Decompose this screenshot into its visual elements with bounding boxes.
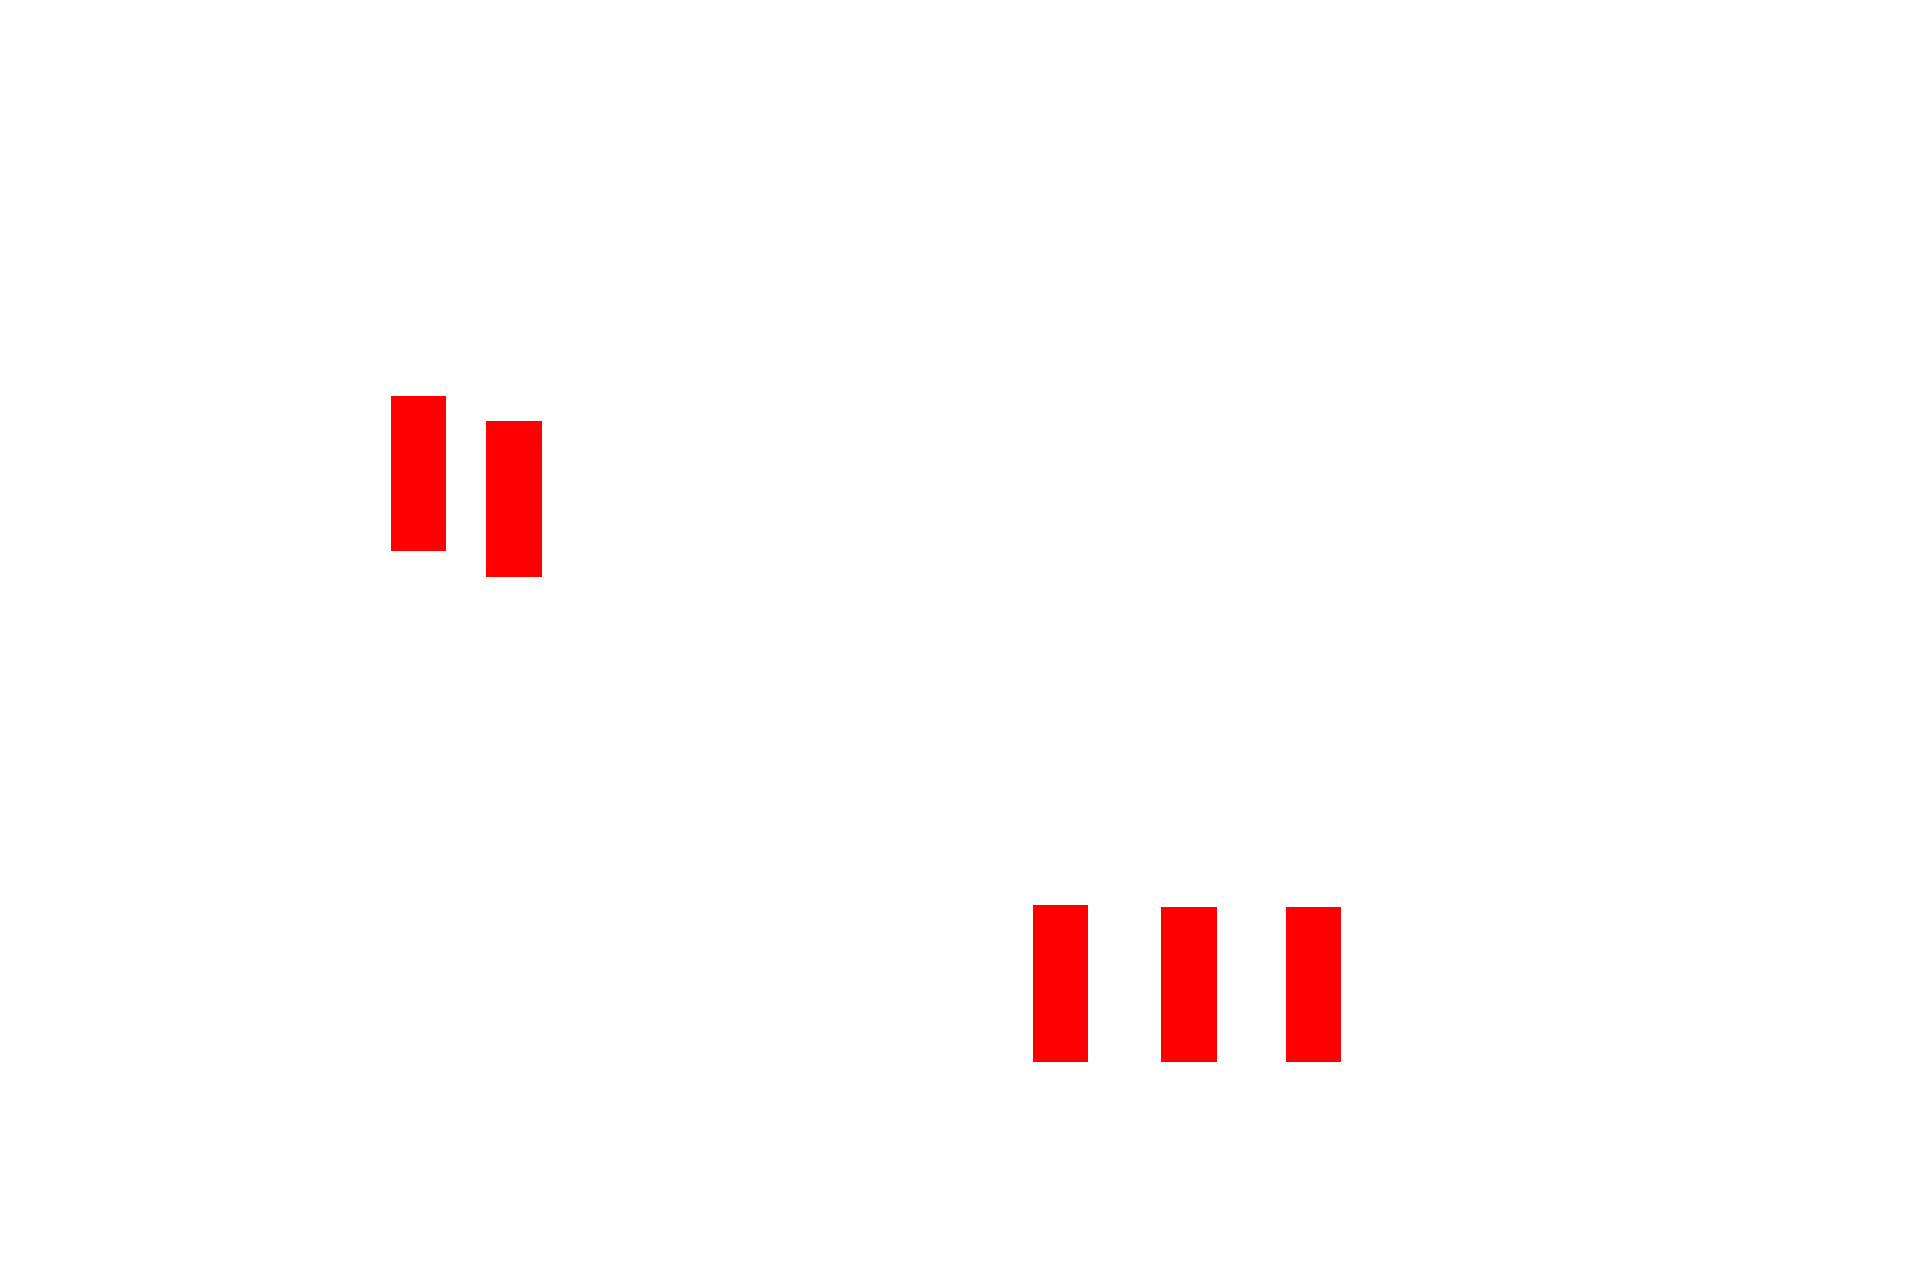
- red bar 3 (lower-right group, left bar): [1033, 905, 1088, 1062]
- red bar 5 (lower-right group, right bar): [1286, 907, 1341, 1062]
- red bar 2 (upper-left group, right bar): [486, 421, 542, 577]
- red bar 1 (upper-left group, left bar): [391, 396, 446, 551]
- red bar 4 (lower-right group, middle bar): [1161, 907, 1217, 1062]
